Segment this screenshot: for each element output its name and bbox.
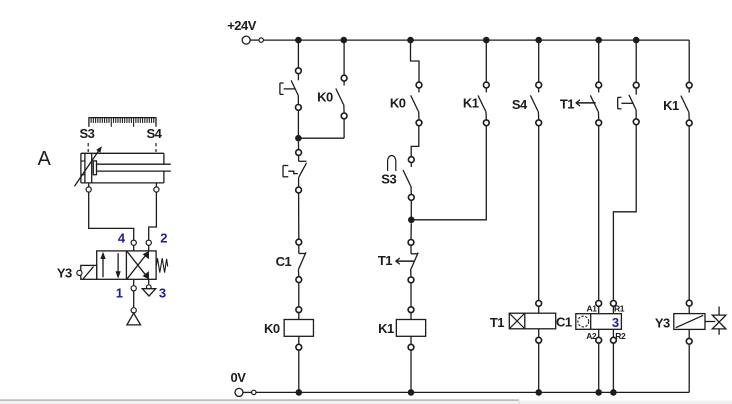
- svg-text:3: 3: [612, 315, 619, 330]
- svg-text:T1: T1: [378, 253, 392, 268]
- wire rail to K1 contact rung4: [485, 40, 487, 82]
- svg-text:T1: T1: [490, 315, 504, 330]
- node junction +24V rung7: [633, 37, 640, 44]
- contact K1 (NO, parallel to S3): [478, 82, 489, 126]
- wire S3 to parallel junction: [410, 201, 412, 220]
- wire K0 latch to junction: [343, 119, 345, 138]
- proximity arc above S3 label: [388, 156, 396, 171]
- svg-text:S3: S3: [80, 126, 95, 141]
- +24V rail: [263, 39, 689, 41]
- wire junction to stop pushbutton: [297, 142, 299, 150]
- tube from cylinder right port to valve port 2: [149, 192, 157, 240]
- wire counter R1 to 0V: [611, 329, 617, 392]
- tube from cylinder left port to valve port 4: [89, 192, 134, 240]
- svg-text:0V: 0V: [231, 370, 247, 385]
- node latch junction: [295, 135, 302, 142]
- wire T1 contact to counter A1: [596, 126, 602, 314]
- window edge at bottom: [0, 401, 732, 404]
- contact T1 (NC, off-delay): [408, 240, 418, 283]
- wire counter A1 to 0V: [596, 329, 602, 392]
- svg-text:Y3: Y3: [655, 316, 670, 331]
- svg-text:2: 2: [160, 231, 167, 246]
- svg-text:A: A: [38, 148, 52, 170]
- valve link symbol right of Y3: [705, 307, 726, 335]
- node junction +24V rung1: [295, 37, 302, 44]
- solenoid pilot of valve (Y3): [77, 265, 97, 279]
- arrow of T1 delayed contact rung6: [576, 100, 596, 106]
- svg-text:K1: K1: [378, 321, 394, 336]
- svg-text:S4: S4: [147, 126, 163, 141]
- wire rail to pushbutton S1: [297, 40, 299, 68]
- contact K0 (NO, rung3): [411, 82, 422, 126]
- wire rail to K0 contact rung3 (jog): [411, 40, 420, 82]
- node parallel junction rung3: [408, 217, 415, 224]
- node junction +24V rung4: [483, 37, 490, 44]
- svg-text:K0: K0: [390, 95, 406, 110]
- relay coil K1: [396, 320, 425, 337]
- svg-text:1: 1: [116, 286, 123, 301]
- svg-text:K0: K0: [317, 90, 333, 105]
- cylinder port left: [86, 183, 91, 192]
- node 0V rung3: [408, 389, 415, 396]
- svg-text:R1: R1: [614, 304, 625, 314]
- wire C1 contact to K0 coil: [296, 283, 302, 320]
- wire reset pushbutton to counter R1 (jog): [611, 125, 637, 314]
- node 0V rung5: [535, 389, 542, 396]
- svg-text:Y3: Y3: [57, 266, 72, 281]
- reed switch S3 (NO): [403, 157, 414, 201]
- valve port 1 connection: [131, 279, 136, 307]
- arrow of T1 delayed contact: [396, 258, 414, 264]
- wire rail corner to K1 contact rung8: [688, 40, 690, 82]
- node junction +24V rung2: [341, 37, 348, 44]
- wire K1 coil to 0V: [408, 336, 414, 392]
- adjustability arrow across cylinder: [75, 146, 102, 186]
- ruler / stroke scale above cylinder: [89, 118, 157, 127]
- +24V supply terminal: [242, 36, 263, 44]
- reset pushbutton (NO): [618, 82, 639, 124]
- svg-text:K1: K1: [463, 96, 479, 111]
- wire pushbutton to latch junction: [297, 111, 299, 139]
- timer relay coil T1 (on-delay): [509, 313, 555, 329]
- svg-text:T1: T1: [560, 97, 574, 112]
- contact C1 (NC, counter): [296, 239, 306, 282]
- wire stop pushbutton to C1 contact: [298, 193, 300, 239]
- svg-text:3: 3: [159, 286, 166, 301]
- wire latch branch horizontal: [298, 137, 344, 139]
- pushbutton S2 (NC, break): [283, 150, 307, 193]
- dashed link S4 to cylinder: [155, 143, 157, 152]
- wire rail to K0 latch contact: [343, 40, 345, 75]
- solenoid coil Y3: [674, 314, 705, 330]
- svg-text:C1: C1: [556, 314, 572, 329]
- svg-text:K1: K1: [663, 98, 679, 113]
- cylinder A (double-acting with cushioning): [81, 153, 171, 183]
- wire Y3 to 0V corner: [686, 329, 692, 392]
- 0V supply terminal: [235, 388, 256, 396]
- svg-text:S3: S3: [381, 171, 396, 186]
- contact K0 (NO latch): [336, 75, 347, 119]
- wire rail to reset pushbutton: [635, 40, 637, 82]
- contact S4 (NO reed): [530, 82, 541, 126]
- dashed link S3 to cylinder: [87, 143, 89, 152]
- wire K1 rung8 to Y3 solenoid: [686, 126, 692, 313]
- wire K1 rung4 down and left to junction: [411, 126, 486, 220]
- relay coil K0: [284, 320, 313, 337]
- pushbutton S1 (NO, make): [280, 68, 301, 110]
- node 0V counter R2: [610, 389, 617, 396]
- valve port 3 exhaust: [142, 279, 155, 296]
- svg-text:S4: S4: [512, 97, 528, 112]
- wire rail to T1 contact: [598, 40, 600, 82]
- svg-text:+24V: +24V: [227, 18, 257, 33]
- wire rail to S4 contact: [538, 40, 540, 82]
- svg-text:A1: A1: [587, 304, 598, 314]
- wire T1 contact to K1 coil: [408, 283, 414, 319]
- counter relay C1: [576, 314, 622, 330]
- wire S4 to T1 coil: [536, 126, 542, 313]
- wire junction to T1 contact: [410, 223, 412, 239]
- wire T1 coil to 0V: [536, 329, 542, 393]
- node 0V rung1: [296, 389, 303, 396]
- node 0V counter A2: [595, 389, 602, 396]
- node junction +24V rung3: [407, 37, 414, 44]
- svg-text:K0: K0: [264, 321, 280, 336]
- valve return spring: [156, 258, 167, 272]
- valve port 4 connection: [131, 240, 136, 251]
- valve port 2 connection: [146, 240, 151, 251]
- valve left position arrows (parallel flow): [100, 252, 120, 279]
- wire K0 coil to 0V: [296, 336, 302, 392]
- cylinder port right: [154, 183, 159, 192]
- 4/2-way valve body: [97, 251, 156, 279]
- svg-text:C1: C1: [276, 254, 292, 269]
- contact T1 (NO, on-delay): [590, 82, 601, 126]
- wire K0 to S3 (jog): [411, 126, 419, 157]
- valve right position arrows (crossed flow): [127, 251, 149, 279]
- 0V rail: [256, 391, 689, 393]
- compressed air supply symbol: [127, 308, 141, 325]
- node junction +24V rung6: [595, 37, 602, 44]
- contact K1 (NO, rung8): [681, 82, 692, 126]
- node junction +24V rung5: [535, 37, 542, 44]
